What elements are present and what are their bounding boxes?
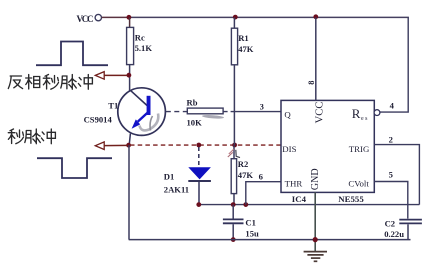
op-amp U IC4 NE555 box	[281, 100, 374, 192]
svg-text:15u: 15u	[245, 229, 259, 239]
wire TRIG pin2	[374, 145, 419, 205]
annotation scribble near R2 top	[228, 149, 240, 157]
waveform second pulse	[37, 158, 112, 178]
svg-text:4: 4	[390, 101, 395, 111]
junction node diode top	[196, 143, 201, 148]
junction node GND ground rail	[313, 237, 318, 242]
label pin GND rotated	[310, 168, 321, 190]
svg-text:e s: e s	[361, 116, 368, 122]
reset inversion bubble	[374, 110, 380, 116]
svg-text:R: R	[352, 106, 361, 121]
junction node collector	[126, 73, 131, 78]
svg-text:2: 2	[389, 135, 393, 145]
wire ground rail	[129, 239, 411, 241]
svg-text:VCC: VCC	[314, 102, 325, 124]
capacitor C1	[223, 205, 244, 240]
wire CVolt pin5	[374, 182, 408, 219]
label 秒脉冲	[8, 129, 55, 144]
resistor R2	[231, 145, 236, 204]
svg-text:47K: 47K	[238, 170, 254, 180]
svg-text:DIS: DIS	[282, 144, 296, 154]
junction node R1 top	[233, 15, 238, 20]
connector arrow inverted pulse output	[95, 72, 127, 80]
resistor Rb	[166, 108, 235, 114]
capacitor C2	[399, 220, 422, 240]
junction node emitter	[126, 143, 131, 148]
svg-text:3: 3	[260, 102, 264, 111]
svg-text:5: 5	[389, 170, 393, 180]
svg-text:0.22u: 0.22u	[384, 229, 404, 239]
svg-text:T1: T1	[108, 101, 118, 111]
svg-text:R2: R2	[238, 159, 249, 169]
svg-text:2AK11: 2AK11	[164, 184, 189, 194]
wire emitter node to ground rail	[128, 145, 130, 239]
svg-text:GND: GND	[310, 168, 321, 190]
svg-text:NE555: NE555	[338, 194, 364, 204]
junction node Rc top	[126, 15, 131, 20]
diode D1	[188, 147, 211, 205]
transistor T1 C9014	[118, 88, 166, 145]
svg-text:C1: C1	[245, 217, 256, 227]
annotation smudge under Rb	[202, 114, 224, 119]
wire output pin3	[235, 111, 281, 113]
svg-text:R1: R1	[238, 33, 249, 43]
ground	[304, 252, 327, 262]
svg-text:THR: THR	[285, 179, 303, 189]
junction node pin8 top	[313, 14, 318, 19]
junction node R1 bottom	[232, 143, 237, 148]
resistor R1	[231, 17, 237, 64]
wire reset pin4 riser	[380, 17, 408, 112]
wire VCC pin8	[315, 17, 317, 100]
wire THR pin6	[246, 182, 281, 205]
svg-text:Rb: Rb	[187, 97, 198, 107]
junction node C1 ground	[231, 237, 236, 242]
wire R1 to discharge node	[233, 65, 235, 145]
svg-text:Rc: Rc	[135, 32, 145, 42]
wire discharge dashed rail to DIS pin	[130, 144, 281, 146]
label pin VCC rotated	[314, 102, 325, 124]
power terminal VCC	[95, 14, 101, 20]
connector arrow second pulse output	[95, 142, 127, 150]
wire top VCC rail left segment	[102, 16, 129, 18]
svg-text:5.1K: 5.1K	[135, 43, 153, 53]
resistor Rc	[127, 17, 134, 90]
annotation gray swirl on emitter	[140, 114, 159, 131]
junction node THR tap	[243, 202, 248, 207]
junction node diode bottom	[196, 202, 201, 207]
svg-text:IC4: IC4	[292, 194, 307, 204]
svg-text:10K: 10K	[187, 117, 203, 127]
svg-text:VCC: VCC	[77, 14, 94, 24]
label 反相秒脉冲	[8, 75, 92, 90]
waveform inverted second pulse	[36, 42, 108, 66]
wire top VCC rail	[129, 16, 409, 18]
svg-text:D1: D1	[164, 171, 175, 181]
wire threshold rail	[199, 204, 420, 206]
svg-text:CVolt: CVolt	[348, 179, 369, 189]
annotation gray hook	[150, 116, 152, 131]
svg-text:TRIG: TRIG	[349, 144, 370, 154]
svg-text:Q: Q	[284, 110, 291, 120]
svg-text:6: 6	[259, 172, 264, 182]
svg-text:8: 8	[307, 81, 316, 85]
junction node R2 bottom	[231, 202, 236, 207]
label pin 8 rotated	[307, 81, 316, 85]
svg-text:47K: 47K	[238, 44, 254, 54]
svg-text:CS9014: CS9014	[84, 114, 113, 124]
svg-text:C2: C2	[385, 219, 396, 229]
wire GND pin to ground	[314, 192, 316, 251]
